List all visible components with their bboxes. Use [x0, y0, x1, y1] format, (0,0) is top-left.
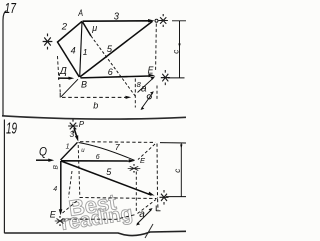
svg-text:Д: Д	[59, 66, 67, 77]
a dimension diagonal (fig19)	[137, 210, 152, 225]
svg-text:a: a	[139, 209, 145, 220]
dashed receding bottom-right edge	[138, 200, 157, 214]
edge A-P2 (label 2)	[57, 21, 82, 42]
arrow P down to box corner T	[74, 128, 77, 138]
svg-text:3: 3	[114, 12, 120, 23]
svg-text:7: 7	[115, 142, 120, 152]
svg-text:P: P	[79, 120, 85, 129]
dashed top back edge	[80, 141, 156, 144]
svg-text:Q: Q	[39, 147, 47, 159]
star marker at E1	[55, 216, 65, 226]
edge T-B (label 1)	[61, 142, 78, 160]
edge A-B vertical (label 1)	[80, 22, 82, 78]
node circle P1	[155, 19, 158, 22]
svg-text:E: E	[50, 209, 57, 219]
thin diagonal E down-left with arrow	[138, 78, 154, 93]
node circle on dimension a	[147, 95, 151, 99]
svg-text:6: 6	[108, 67, 113, 77]
svg-text:6: 6	[96, 154, 100, 161]
segment A-mu	[82, 22, 91, 37]
page border left upper	[3, 11, 7, 116]
svg-text:5: 5	[107, 44, 113, 55]
svg-text:2: 2	[61, 22, 68, 33]
svg-text:b: b	[93, 101, 98, 111]
star marker at E	[161, 70, 170, 85]
dashed corner-E	[138, 144, 155, 160]
dashed back-left vertical	[78, 145, 80, 196]
thin line T-E (label 7)	[79, 143, 135, 161]
diagonal B-star (label 5)	[61, 161, 152, 195]
dashed vertical left	[58, 56, 61, 92]
dashed vertical mid	[134, 79, 136, 108]
star marker at P1	[159, 14, 168, 27]
svg-text:a: a	[141, 84, 147, 95]
corner tick bottom right	[156, 206, 160, 212]
star marker at P2	[43, 33, 53, 49]
edge P2-B (label 4)	[58, 42, 80, 77]
edge B-E with arrow	[81, 76, 151, 78]
point D arrow	[58, 77, 71, 79]
star marker below E (wide)	[128, 164, 141, 172]
star marker at P	[68, 119, 78, 133]
svg-text:В: В	[81, 79, 87, 89]
edge A-P1 (label 3)	[83, 20, 153, 22]
star marker bottom-right	[160, 190, 169, 205]
svg-text:В: В	[52, 165, 59, 170]
thin dashed continuation (label 6)	[91, 36, 136, 97]
dashed vertical below E	[156, 86, 158, 101]
svg-text:A: A	[78, 8, 84, 19]
dashed back bottom edge	[80, 198, 157, 199]
watermark	[59, 189, 134, 235]
svg-text:1: 1	[66, 144, 70, 151]
svg-text:3: 3	[70, 129, 75, 139]
svg-text:4: 4	[53, 186, 57, 193]
dashed vertical below E	[135, 172, 137, 214]
dashed E1 to back corner	[63, 200, 79, 214]
left edge B-E1 (label 4)	[60, 161, 62, 212]
stray diagonal mark bottom right	[145, 224, 153, 238]
thin edge B to hidden corner	[61, 79, 78, 97]
arrowhead at P1	[148, 19, 155, 22]
svg-text:E: E	[148, 66, 154, 77]
svg-text:19: 19	[6, 121, 17, 138]
divider between figures	[2, 116, 186, 119]
svg-text:17: 17	[5, 0, 17, 17]
svg-text:μ: μ	[91, 23, 97, 33]
svg-text:c: c	[172, 50, 181, 54]
dashed right back edge	[157, 144, 158, 211]
extra slanted dashed	[69, 171, 73, 198]
dashed vertical below P1 star	[155, 24, 158, 71]
b dashed dimension line	[62, 96, 128, 98]
svg-text:1: 1	[83, 47, 88, 57]
c dimension bracket fig17	[168, 21, 186, 78]
c dimension bracket fig19	[160, 143, 186, 197]
dimension diagonal a	[142, 93, 154, 109]
corner tick left	[59, 93, 61, 98]
edge B-E thick (label 6)	[61, 160, 131, 162]
svg-text:c: c	[173, 169, 182, 173]
page border bottom	[4, 231, 186, 235]
svg-text:4: 4	[71, 45, 76, 55]
dashed bottom front edge	[62, 214, 137, 219]
diagonal B-P1 (label 5)	[80, 21, 153, 77]
point Q arrow	[36, 159, 51, 161]
page border left lower	[3, 120, 5, 234]
